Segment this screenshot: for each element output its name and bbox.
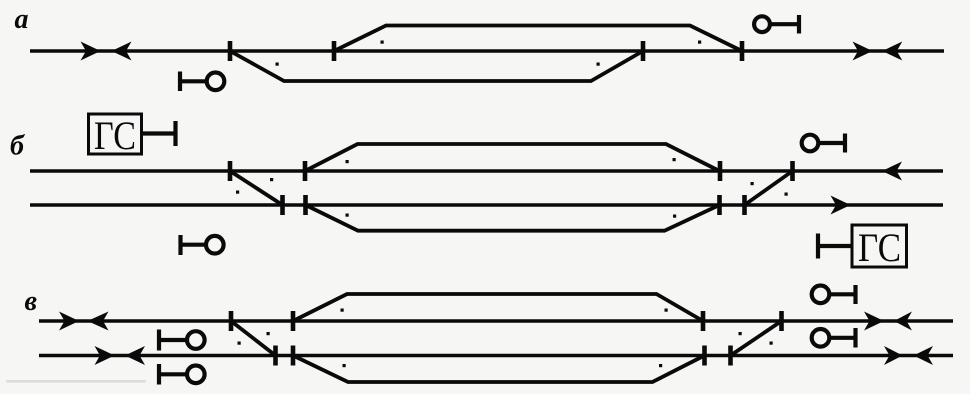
joint tick в lower x=293 [291,346,296,366]
switch dot а3 [597,63,600,66]
joint tick б upper x=305 [303,161,308,181]
arrowhead right-pointing (в lower left) [95,346,115,365]
signal right of а (stem) [772,22,800,26]
signal left of а (stem) [180,79,206,83]
joint tick в lower x=704.5 [702,346,707,366]
joint tick в upper x=231 [229,311,234,331]
signal в left lower (head circle) [187,366,205,384]
arrowhead right-pointing (в upper right) [864,312,884,331]
svg-text:ГС: ГС [94,113,136,158]
crossover right (б) [745,171,793,205]
joint tick а x=643 [641,41,646,61]
loop track below (в) [293,356,705,383]
arrowhead left-pointing (в upper right) [894,312,912,331]
switch dot б7 [751,182,754,185]
joint tick б lower x=719 [717,195,722,215]
arrowhead left-pointing (в upper left) [88,312,109,331]
arrowhead right-pointing (в lower right) [884,346,903,365]
signal left of а (head circle) [207,73,225,91]
ГС left mast bar (б) [173,121,177,146]
signal в right lower (stem) [830,336,856,340]
switch dot в3 [341,309,344,312]
ГС box right (б) [852,225,907,267]
joint tick б upper x=792.5 [790,161,795,181]
crossover left (в) [231,321,276,356]
signal below б left (mast bar) [178,235,182,255]
siding track above (а) [334,26,742,52]
switch dot а2 [381,41,384,44]
switch dot б1 [270,178,273,181]
signal в left upper (stem) [159,338,187,342]
ГС box left (б) [89,114,142,154]
lower main track в [39,354,953,357]
svg-text:а: а [15,4,29,35]
signal в right upper (mast bar) [853,285,857,304]
arrowhead left-pointing (в lower right) [914,346,934,365]
crossover right (в) [731,321,782,356]
loop track below (б) [306,205,720,231]
switch dot в7 [739,332,742,335]
ГС right mast bar (б) [816,234,820,259]
signal left of а (mast bar) [178,72,182,92]
svg-text:в: в [25,286,38,317]
arrowhead right-pointing (б lower right) [831,196,851,215]
switch dot в2 [238,342,241,345]
switch dot в5 [665,309,668,312]
upper main track в [39,319,953,322]
joint tick б upper x=720 [718,161,723,181]
joint tick в upper x=781.5 [779,311,784,331]
switch dot б6 [673,215,676,218]
signal right of а (mast bar) [797,15,801,34]
arrowhead left-pointing (а right end) [882,42,902,61]
svg-text:ГС: ГС [858,225,901,270]
signal в right lower (head circle) [812,329,830,347]
switch dot б2 [236,191,239,194]
signal below б left (head circle) [206,236,224,254]
signal above б right (mast bar) [843,134,847,153]
ГС left stem (б) [142,131,176,135]
lower main track б [30,203,943,206]
joint tick а x=230 [228,41,233,61]
ГС right stem (б) [818,244,852,248]
switch dot б3 [346,160,349,163]
crossover left (б) [230,171,283,205]
upper main track б [30,169,943,172]
loop track above (в) [293,294,703,321]
switch dot а1 [276,63,279,66]
joint tick б upper x=230 [228,161,233,181]
switch dot а4 [698,41,701,44]
signal в left lower (stem) [159,372,187,376]
arrowhead left-pointing (б upper right) [882,162,902,181]
signal в left lower (mast bar) [157,364,161,385]
signal above б right (stem) [820,141,846,145]
main track а [30,49,944,52]
signal right of а (head circle) [754,16,770,32]
signal в right upper (stem) [830,292,856,296]
joint tick в upper x=293 [291,311,296,331]
joint tick б lower x=744.5 [742,195,747,215]
arrowhead right-pointing (а left end) [81,42,101,61]
joint tick в lower x=730.5 [728,346,733,366]
switch dot б8 [785,193,788,196]
switch dot б5 [673,158,676,161]
signal в right lower (mast bar) [853,328,857,348]
joint tick б lower x=305.5 [303,195,308,215]
switch dot в8 [770,342,773,345]
joint tick в lower x=275.5 [273,346,278,366]
joint tick б lower x=282.5 [280,195,285,215]
siding track below (а) [230,51,643,81]
arrowhead right-pointing (а right end) [853,42,873,61]
arrowhead right-pointing (в upper left) [59,312,79,331]
signal below б left (stem) [181,243,206,247]
joint tick а x=334 [332,41,337,61]
joint tick а x=742 [740,41,745,61]
arrowhead left-pointing (а left end) [112,42,132,61]
switch dot б4 [346,214,349,217]
signal в right upper (head circle) [812,286,830,304]
switch dot в6 [659,364,662,367]
loop track above (б) [305,144,720,171]
svg-text:б: б [10,131,25,162]
arrowhead left-pointing (в lower left) [125,346,145,365]
switch dot в4 [343,364,346,367]
signal в left upper (head circle) [187,331,205,349]
switch dot в1 [267,332,270,335]
signal в left upper (mast bar) [157,330,161,351]
signal above б right (head circle) [802,135,819,152]
joint tick в upper x=703 [701,311,706,331]
faint scan artifact bottom-left [6,380,146,383]
